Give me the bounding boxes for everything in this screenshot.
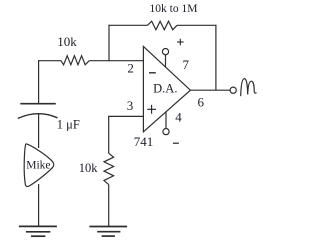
plus sign V+ supply xyxy=(177,39,184,46)
pin 7 label xyxy=(182,57,189,72)
wire left vertical to capacitor xyxy=(38,60,40,104)
pin 4 stub and terminal xyxy=(163,112,169,135)
ground middle xyxy=(89,227,127,237)
AC sine output symbol xyxy=(241,79,256,96)
label 10k left xyxy=(57,34,77,49)
pin 7 stub and terminal xyxy=(162,49,168,68)
label 10k bottom xyxy=(79,161,99,175)
wire mike to ground xyxy=(38,184,40,226)
svg-text:741: 741 xyxy=(134,134,154,149)
wire feedback right vertical xyxy=(215,25,217,91)
wire pin 3 horizontal xyxy=(109,116,144,153)
wire input to pin 2 xyxy=(39,60,144,62)
minus sign V- supply xyxy=(173,142,179,144)
svg-text:10k to 1M: 10k to 1M xyxy=(150,3,198,15)
ground left xyxy=(19,226,57,236)
svg-text:4: 4 xyxy=(175,109,182,124)
op-amp U1 741 triangle xyxy=(143,46,190,131)
pin 4 label xyxy=(175,109,182,124)
microphone Mike symbol xyxy=(24,144,54,187)
svg-text:7: 7 xyxy=(182,57,189,72)
wire top rail right segment xyxy=(177,24,216,26)
wire feedback left vertical xyxy=(108,25,110,62)
pin 3 label xyxy=(127,98,134,113)
resistor R2 10k vertical zigzag xyxy=(104,153,114,184)
svg-text:10k: 10k xyxy=(57,34,77,49)
resistor RF 10k-to-1M zigzag xyxy=(148,21,178,30)
label 10k to 1M xyxy=(150,3,198,15)
op-amp minus sign at pin 2 xyxy=(149,72,156,74)
svg-text:6: 6 xyxy=(198,95,205,110)
svg-text:3: 3 xyxy=(127,98,134,113)
wire output pin 6 xyxy=(190,89,230,91)
op-amp plus sign at pin 3 xyxy=(147,105,156,114)
label 1 uF xyxy=(57,117,80,131)
wire capacitor to mike xyxy=(38,114,40,148)
svg-text:10k: 10k xyxy=(79,161,99,175)
wire resistor to middle ground xyxy=(108,185,110,227)
resistor R1 10k zigzag xyxy=(61,56,89,65)
pin 6 label xyxy=(198,95,205,110)
label 741 xyxy=(134,134,154,149)
capacitor C1 top plate xyxy=(20,103,56,105)
pin 2 label xyxy=(127,61,134,76)
svg-text:2: 2 xyxy=(127,61,134,76)
capacitor C1 curved plate xyxy=(18,114,58,119)
svg-text:Mike: Mike xyxy=(26,159,50,171)
wire top rail left segment xyxy=(109,24,148,26)
svg-text:1 μF: 1 μF xyxy=(57,117,80,131)
label D.A. xyxy=(153,82,177,96)
output terminal circle xyxy=(230,87,236,93)
svg-text:D.A.: D.A. xyxy=(153,82,177,96)
